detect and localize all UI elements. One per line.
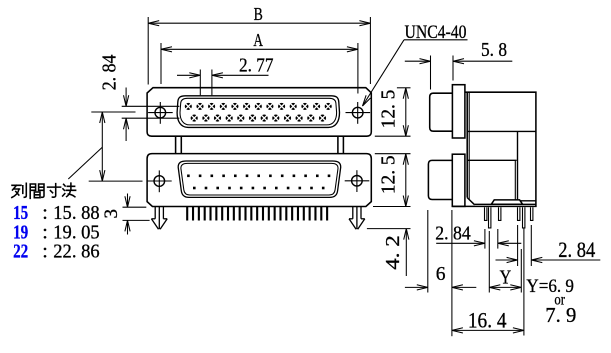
side view pin 3 <box>499 207 501 220</box>
side view internal step lines <box>467 131 536 204</box>
svg-text:22: 22 <box>13 240 28 262</box>
svg-text:2. 84: 2. 84 <box>98 55 120 91</box>
connector body lower section (front view) <box>147 154 371 207</box>
dimension 2.77 (contact pitch) <box>177 55 274 96</box>
male D-sub shroud inner outline <box>181 163 338 195</box>
svg-text:12. 5: 12. 5 <box>378 90 400 129</box>
svg-text:4. 2: 4. 2 <box>382 235 404 270</box>
side view pin 4 <box>518 207 520 220</box>
dimension A (screw spacing) <box>161 30 358 94</box>
screw hole bottom-right <box>345 170 370 192</box>
dimension 5.8 (flange offset) <box>405 39 513 90</box>
svg-text:A: A <box>253 30 263 50</box>
female D-sub shroud inner outline <box>180 98 337 125</box>
female D-sub shroud outer outline <box>177 96 339 128</box>
female contacts row 2 (12 sockets) <box>191 115 326 122</box>
table row 19 : 19.05 <box>13 221 100 243</box>
male pins row 2 (12 pins) <box>193 187 325 190</box>
side view lower flange <box>452 154 465 206</box>
svg-text:12. 5: 12. 5 <box>378 155 400 194</box>
right web between sections <box>338 136 344 153</box>
dimension 2.84 left (contact row spacing) <box>98 55 179 141</box>
male D-sub shroud outer outline <box>178 161 341 197</box>
kanji 列 <box>12 183 26 197</box>
dimension Y (row group spacing) <box>489 229 524 336</box>
kanji 間 <box>30 184 44 198</box>
side view upper mating shroud <box>430 93 453 131</box>
side view pin 2 (long) <box>489 207 491 228</box>
male pins row 1 (13 pins) <box>187 175 330 178</box>
table row 22 : 22.86 <box>13 240 100 262</box>
side view pin 1 <box>485 207 487 220</box>
dimension 2.84 bottom-left (pin pitch) <box>435 223 521 249</box>
svg-text::: : <box>42 240 48 262</box>
side view body outline <box>452 92 536 206</box>
kanji 法 <box>63 183 76 197</box>
svg-text:5. 8: 5. 8 <box>481 39 507 61</box>
svg-text:2. 77: 2. 77 <box>239 55 274 77</box>
dimension 6 (shroud to flange) <box>405 210 476 336</box>
dimension 12.5 lower section height <box>373 154 411 207</box>
screw hole top-right UNC4-40 <box>346 102 371 124</box>
row spacing dimension with leader <box>68 112 142 181</box>
dimension 2.84 bottom-right (pin pitch) <box>496 225 601 266</box>
dimension B (overall width) <box>148 4 370 85</box>
female contacts row 1 (13 sockets) <box>185 103 332 110</box>
svg-text:2. 84: 2. 84 <box>435 223 471 245</box>
dimension 12.5 upper section height <box>375 88 411 136</box>
label UNC4-40 with leader arrow <box>363 22 468 106</box>
svg-text:16. 4: 16. 4 <box>468 307 507 332</box>
table row 15 : 15.88 <box>13 202 100 224</box>
dimension 16.4 (flange to last pin) <box>452 307 524 333</box>
note Y=6.9 or 7.9 <box>526 277 576 327</box>
side view lower mating shroud <box>428 160 452 199</box>
side view pin 5 (long) <box>523 207 525 228</box>
side view pin 6 <box>531 207 533 220</box>
side view bottom rail <box>491 200 522 204</box>
left web between sections <box>176 136 182 153</box>
svg-text:2. 84: 2. 84 <box>558 237 595 262</box>
board lock peg left <box>151 207 167 230</box>
svg-text:Y=6. 9: Y=6. 9 <box>526 277 574 297</box>
dimension 3 (tail length) <box>101 194 150 235</box>
svg-text:22. 86: 22. 86 <box>53 240 99 262</box>
svg-text:Y: Y <box>500 266 512 288</box>
svg-text:7. 9: 7. 9 <box>545 303 576 327</box>
svg-text:B: B <box>254 4 263 24</box>
svg-text:6: 6 <box>436 263 446 285</box>
screw hole bottom-left <box>147 170 172 192</box>
solder tail comb (front view) <box>186 207 328 221</box>
side view upper flange <box>452 85 465 138</box>
connector body upper section (front view) <box>147 88 371 137</box>
svg-text:3: 3 <box>101 209 122 219</box>
kanji 寸 <box>48 184 61 198</box>
dimension 4.2 (peg length) <box>367 229 411 276</box>
board lock peg right <box>349 207 365 230</box>
screw hole top-left UNC4-40 <box>148 102 173 124</box>
